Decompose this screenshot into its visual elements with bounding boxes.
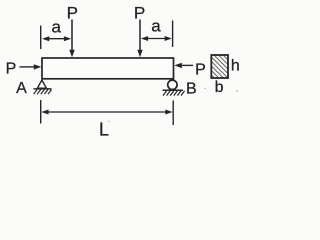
svg-text:A: A [16, 80, 27, 97]
svg-text:h: h [231, 58, 240, 75]
svg-text:a: a [51, 17, 61, 36]
svg-text:P: P [134, 3, 145, 22]
svg-text:P: P [6, 61, 17, 78]
svg-text:P: P [195, 62, 206, 79]
svg-text:P: P [67, 3, 78, 22]
svg-text:L: L [99, 120, 109, 140]
svg-text:a: a [151, 16, 161, 35]
svg-text:B: B [186, 80, 197, 97]
svg-text:b: b [215, 79, 224, 96]
